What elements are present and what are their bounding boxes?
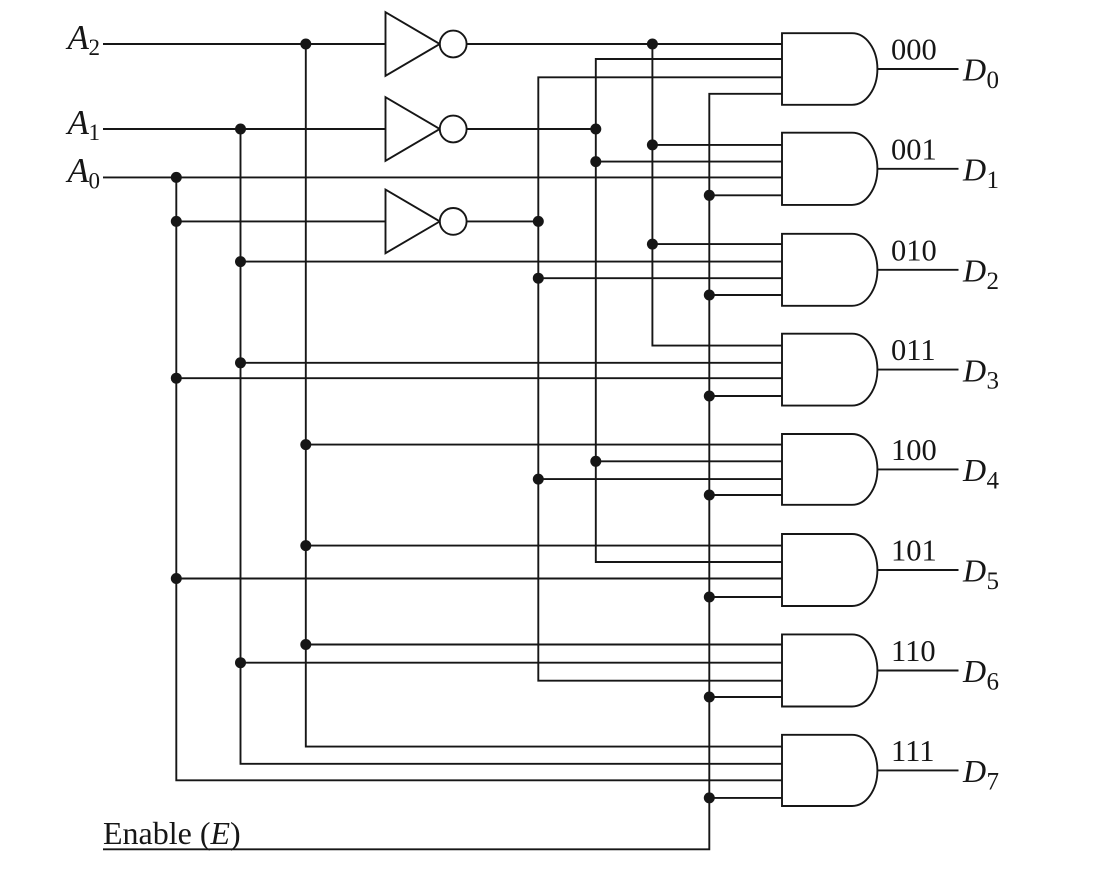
svg-text:001: 001 — [891, 132, 937, 166]
svg-text:2: 2 — [987, 268, 1000, 295]
svg-text:000: 000 — [891, 33, 937, 67]
svg-text:4: 4 — [987, 467, 1000, 494]
svg-text:5: 5 — [987, 568, 1000, 595]
svg-text:100: 100 — [891, 433, 937, 467]
svg-text:1: 1 — [987, 167, 1000, 194]
svg-text:111: 111 — [891, 734, 935, 768]
svg-text:1: 1 — [89, 120, 101, 145]
svg-text:0: 0 — [89, 168, 101, 193]
svg-text:A: A — [66, 18, 90, 57]
svg-text:011: 011 — [891, 333, 936, 367]
svg-text:D: D — [962, 753, 986, 789]
svg-text:D: D — [962, 553, 986, 589]
svg-text:A: A — [66, 103, 90, 142]
svg-text:010: 010 — [891, 233, 937, 267]
svg-text:A: A — [66, 151, 90, 190]
svg-text:D: D — [962, 352, 986, 388]
svg-text:D: D — [962, 452, 986, 488]
svg-text:2: 2 — [89, 35, 101, 60]
svg-text:D: D — [962, 653, 986, 689]
svg-text:Enable (E): Enable (E) — [103, 815, 241, 851]
svg-text:7: 7 — [987, 768, 1000, 795]
svg-text:101: 101 — [891, 534, 937, 568]
svg-text:3: 3 — [987, 368, 1000, 395]
svg-text:D: D — [962, 253, 986, 289]
svg-text:D: D — [962, 152, 986, 188]
svg-text:110: 110 — [891, 634, 936, 668]
svg-text:6: 6 — [987, 669, 1000, 696]
svg-text:0: 0 — [987, 67, 1000, 94]
svg-text:D: D — [962, 52, 986, 88]
